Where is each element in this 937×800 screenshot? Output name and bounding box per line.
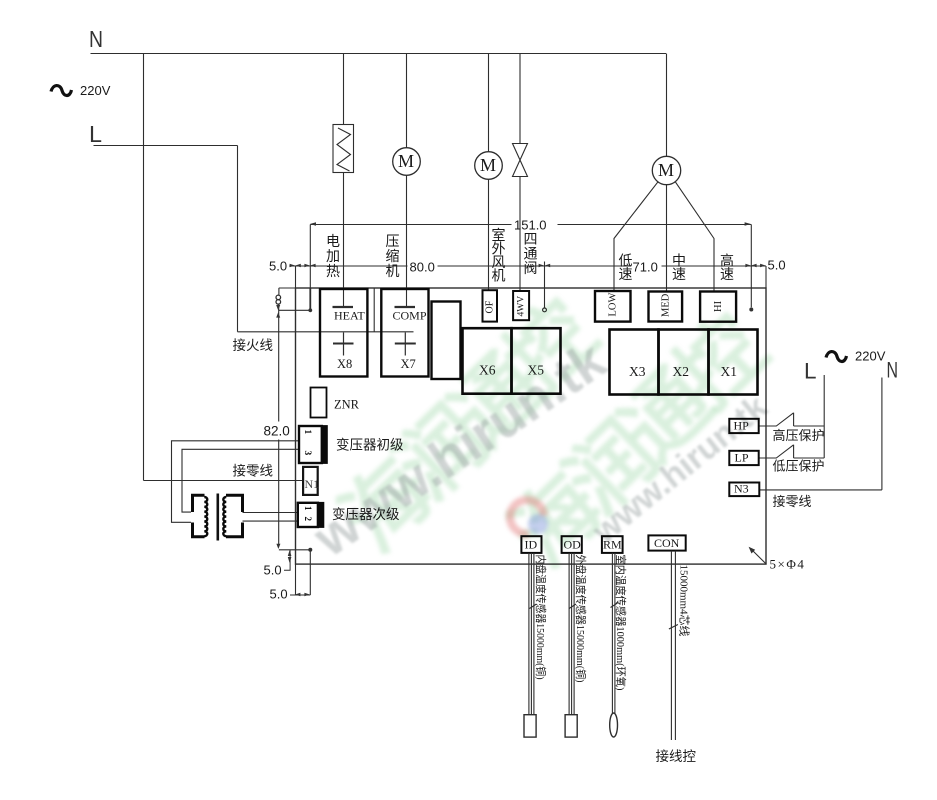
- svg-text:通: 通: [524, 247, 538, 263]
- svg-text:变压器次级: 变压器次级: [332, 507, 400, 522]
- svg-text:四: 四: [524, 233, 538, 248]
- svg-text:5.0: 5.0: [270, 587, 288, 602]
- svg-text:MED: MED: [661, 293, 672, 317]
- svg-text:N1: N1: [305, 477, 320, 491]
- svg-text:220V: 220V: [855, 349, 886, 364]
- svg-text:外盘温度传感器15000mm(铜): 外盘温度传感器15000mm(铜): [574, 555, 588, 683]
- svg-text:变压器初级: 变压器初级: [336, 437, 404, 453]
- svg-text:HEAT: HEAT: [334, 309, 365, 323]
- svg-text:1: 1: [302, 430, 312, 435]
- svg-text:CON: CON: [654, 536, 680, 550]
- svg-text:X6: X6: [479, 363, 496, 378]
- svg-text:5×Φ4: 5×Φ4: [770, 557, 806, 572]
- svg-text:15000mm4芯线: 15000mm4芯线: [678, 565, 692, 637]
- svg-text:OD: OD: [564, 538, 582, 552]
- svg-text:5.0: 5.0: [768, 258, 786, 273]
- svg-text:机: 机: [492, 269, 506, 285]
- svg-text:N: N: [89, 26, 103, 52]
- svg-text:速: 速: [720, 267, 734, 283]
- svg-text:LOW: LOW: [608, 293, 619, 317]
- svg-text:缩: 缩: [386, 249, 400, 265]
- svg-text:内盘温度传感器15000mm(铜): 内盘温度传感器15000mm(铜): [534, 555, 548, 680]
- svg-text:低压保护: 低压保护: [773, 459, 825, 474]
- svg-text:HI: HI: [713, 300, 724, 312]
- svg-text:N3: N3: [734, 482, 749, 496]
- svg-text:X3: X3: [629, 364, 646, 379]
- svg-text:4WV: 4WV: [517, 296, 527, 317]
- svg-text:220V: 220V: [80, 83, 111, 98]
- svg-text:热: 热: [326, 264, 340, 280]
- svg-text:高: 高: [720, 253, 734, 270]
- svg-text:压: 压: [386, 235, 400, 250]
- svg-text:M: M: [658, 160, 674, 180]
- svg-text:高压保护: 高压保护: [773, 428, 825, 443]
- svg-text:ID: ID: [525, 538, 538, 552]
- svg-text:接零线: 接零线: [773, 494, 812, 509]
- svg-text:接线控: 接线控: [656, 748, 697, 764]
- svg-text:加: 加: [326, 249, 340, 265]
- svg-text:X7: X7: [401, 357, 416, 371]
- svg-text:室: 室: [492, 227, 506, 244]
- svg-text:阀: 阀: [524, 261, 538, 277]
- svg-text:2: 2: [303, 517, 313, 522]
- svg-text:L: L: [804, 359, 817, 384]
- svg-text:5.0: 5.0: [264, 563, 282, 578]
- svg-text:X1: X1: [721, 364, 738, 379]
- svg-text:X2: X2: [673, 364, 690, 379]
- svg-text:151.0: 151.0: [514, 218, 547, 233]
- svg-text:M: M: [480, 155, 496, 175]
- svg-text:X8: X8: [337, 357, 352, 371]
- svg-text:OF: OF: [485, 300, 496, 313]
- svg-text:速: 速: [619, 267, 633, 283]
- svg-text:接火线: 接火线: [233, 337, 274, 353]
- svg-text:RM: RM: [603, 538, 622, 552]
- svg-text:5.0: 5.0: [269, 259, 287, 274]
- svg-text:COMP: COMP: [393, 309, 427, 323]
- svg-text:ZNR: ZNR: [334, 398, 360, 412]
- svg-text:LP: LP: [735, 451, 749, 465]
- svg-text:X5: X5: [528, 363, 545, 378]
- svg-text:速: 速: [672, 267, 686, 283]
- svg-text:M: M: [398, 151, 414, 171]
- svg-text:N: N: [887, 358, 899, 383]
- svg-text:HP: HP: [734, 419, 750, 433]
- svg-text:L: L: [89, 121, 102, 147]
- svg-text:室内温度传感器1000mm(环氧): 室内温度传感器1000mm(环氧): [614, 555, 628, 691]
- svg-text:电: 电: [326, 234, 340, 250]
- svg-text:机: 机: [386, 264, 400, 280]
- svg-text:1: 1: [303, 506, 313, 511]
- svg-text:3: 3: [302, 451, 312, 456]
- svg-text:71.0: 71.0: [633, 260, 658, 275]
- svg-text:82.0: 82.0: [264, 424, 290, 439]
- svg-text:80.0: 80.0: [410, 260, 435, 275]
- svg-text:接零线: 接零线: [233, 463, 274, 479]
